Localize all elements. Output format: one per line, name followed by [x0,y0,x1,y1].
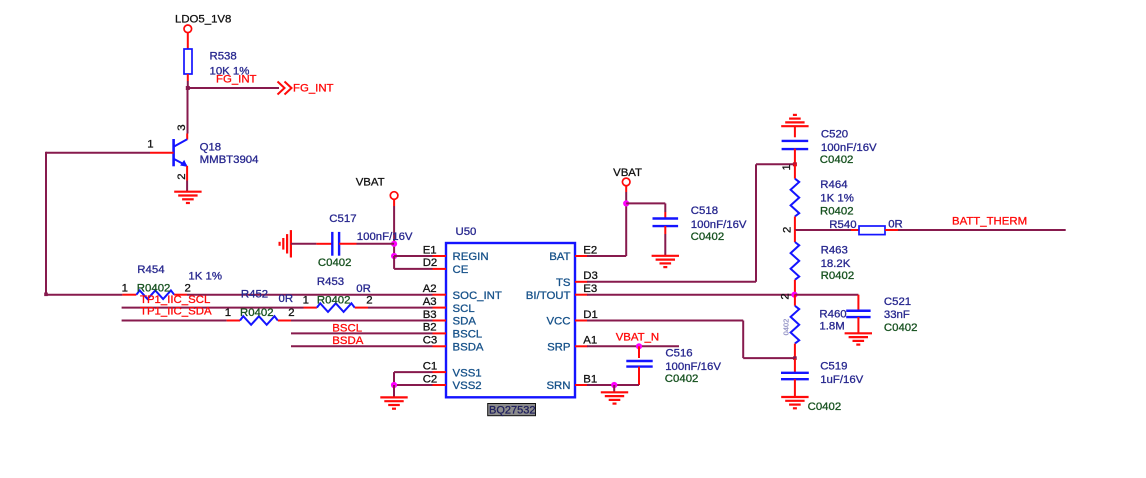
svg-text:Q18: Q18 [200,142,222,154]
svg-text:BI/TOUT: BI/TOUT [526,290,571,302]
svg-text:E1: E1 [423,244,437,256]
svg-text:R0402: R0402 [240,307,274,319]
svg-text:B1: B1 [583,373,597,385]
svg-text:1: 1 [225,307,231,319]
svg-text:VSS2: VSS2 [453,380,482,392]
svg-text:2: 2 [288,307,294,319]
svg-text:R454: R454 [137,264,164,276]
svg-text:D3: D3 [583,270,598,282]
svg-text:100nF/16V: 100nF/16V [357,231,413,243]
svg-text:C519: C519 [820,361,847,373]
svg-text:TS: TS [556,277,571,289]
svg-text:1: 1 [303,295,309,307]
svg-text:LDO5_1V8: LDO5_1V8 [175,14,231,26]
svg-text:1K 1%: 1K 1% [820,193,854,205]
svg-text:BSDA: BSDA [453,342,484,354]
svg-text:100nF/16V: 100nF/16V [691,219,747,231]
svg-text:FG_INT: FG_INT [216,73,257,85]
svg-text:18.2K: 18.2K [821,258,851,270]
svg-text:C516: C516 [665,348,692,360]
svg-text:U50: U50 [456,226,477,238]
svg-text:R540: R540 [829,219,856,231]
svg-text:FG_INT: FG_INT [293,82,334,94]
svg-text:E2: E2 [583,244,597,256]
svg-text:C0402: C0402 [808,401,842,413]
svg-text:1uF/16V: 1uF/16V [820,374,863,386]
svg-text:A1: A1 [583,335,597,347]
svg-text:TP1_IIC_SDA: TP1_IIC_SDA [140,306,212,318]
svg-text:1: 1 [147,139,153,151]
svg-text:C2: C2 [423,373,438,385]
svg-text:0402: 0402 [782,319,791,336]
svg-text:C517: C517 [329,213,356,225]
svg-text:SCL: SCL [453,303,475,315]
svg-text:C0402: C0402 [884,322,918,334]
svg-text:BSDA: BSDA [332,335,363,347]
svg-text:33nF: 33nF [884,309,910,321]
svg-text:0R: 0R [356,283,371,295]
svg-text:SOC_INT: SOC_INT [453,290,502,302]
svg-text:BSCL: BSCL [453,329,483,341]
svg-text:R463: R463 [821,245,848,257]
svg-text:C0402: C0402 [691,231,725,243]
svg-text:REGIN: REGIN [453,251,489,263]
svg-text:C521: C521 [884,296,911,308]
svg-text:2: 2 [782,227,794,233]
svg-text:0R: 0R [279,293,294,305]
svg-text:C520: C520 [821,129,848,141]
svg-text:BATT_THERM: BATT_THERM [952,216,1027,228]
svg-text:MMBT3904: MMBT3904 [200,154,259,166]
svg-text:VBAT: VBAT [356,177,385,189]
svg-text:A3: A3 [423,296,437,308]
svg-text:A2: A2 [423,283,437,295]
svg-text:SDA: SDA [453,316,477,328]
svg-text:VSS1: VSS1 [453,367,482,379]
svg-text:B2: B2 [423,322,437,334]
svg-text:BSCL: BSCL [332,323,362,335]
svg-text:R464: R464 [820,179,847,191]
svg-text:R452: R452 [241,288,268,300]
svg-text:C3: C3 [423,335,438,347]
svg-text:2: 2 [780,293,792,299]
svg-text:C0402: C0402 [665,373,699,385]
svg-text:E3: E3 [583,283,597,295]
svg-text:0R: 0R [888,218,903,230]
svg-text:TP1_IIC_SCL: TP1_IIC_SCL [140,294,210,306]
svg-text:1K 1%: 1K 1% [188,271,222,283]
svg-text:C518: C518 [691,205,718,217]
svg-text:100nF/16V: 100nF/16V [665,361,721,373]
svg-text:VBAT: VBAT [613,167,642,179]
svg-text:100nF/16V: 100nF/16V [821,142,877,154]
svg-text:SRP: SRP [547,342,570,354]
svg-text:2: 2 [185,282,191,294]
svg-text:R0402: R0402 [821,270,855,282]
svg-text:R460: R460 [819,308,846,320]
svg-text:VBAT_N: VBAT_N [616,332,659,344]
svg-text:R0402: R0402 [820,206,854,218]
svg-text:R538: R538 [210,51,237,63]
svg-text:R0402: R0402 [137,282,171,294]
svg-text:1: 1 [781,164,793,170]
svg-text:D1: D1 [583,309,598,321]
svg-text:1: 1 [122,282,128,294]
svg-text:SRN: SRN [546,380,570,392]
svg-text:CE: CE [453,264,469,276]
svg-text:D2: D2 [423,257,438,269]
svg-text:VCC: VCC [546,316,570,328]
svg-text:BQ27532: BQ27532 [489,404,535,416]
svg-text:2: 2 [366,295,372,307]
svg-text:R0402: R0402 [317,295,351,307]
svg-text:C0402: C0402 [318,257,352,269]
svg-text:B3: B3 [423,309,437,321]
svg-text:3: 3 [176,124,188,130]
svg-text:C0402: C0402 [820,154,854,166]
svg-text:BAT: BAT [549,251,570,263]
svg-text:C1: C1 [423,360,438,372]
svg-text:1.8M: 1.8M [819,321,844,333]
svg-text:R453: R453 [317,276,344,288]
